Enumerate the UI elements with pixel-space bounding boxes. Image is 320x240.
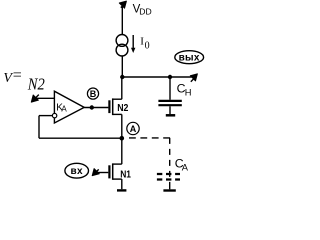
svg-text:A: A <box>61 105 67 114</box>
svg-text:вых: вых <box>179 53 200 64</box>
svg-text:A: A <box>182 163 189 173</box>
svg-text:N2: N2 <box>117 102 128 114</box>
svg-text:A: A <box>130 124 137 134</box>
svg-text:I: I <box>140 35 144 47</box>
svg-text:DD: DD <box>139 6 151 16</box>
svg-text:вх: вх <box>71 166 83 177</box>
svg-text:B: B <box>90 89 97 99</box>
svg-text:=: = <box>13 67 22 84</box>
svg-text:N2: N2 <box>27 75 45 94</box>
svg-text:H: H <box>185 87 192 97</box>
svg-text:N1: N1 <box>120 169 131 181</box>
svg-text:0: 0 <box>145 41 150 52</box>
